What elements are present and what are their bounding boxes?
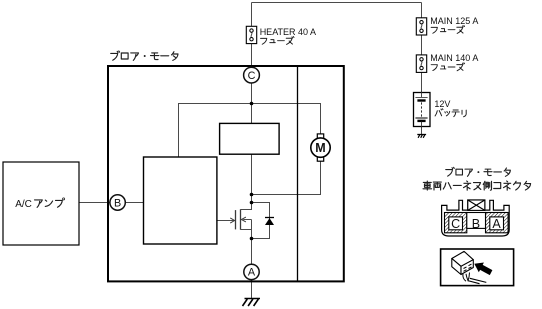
svg-text:MAIN 125 A: MAIN 125 A bbox=[430, 16, 478, 26]
svg-text:M: M bbox=[315, 141, 325, 155]
svg-text:A: A bbox=[248, 267, 256, 279]
svg-text:A: A bbox=[492, 217, 501, 231]
svg-text:C: C bbox=[451, 217, 460, 231]
svg-text:A/C: A/C bbox=[15, 199, 32, 210]
svg-text:C: C bbox=[248, 70, 256, 82]
svg-text:MAIN 140 A: MAIN 140 A bbox=[430, 53, 478, 63]
svg-text:B: B bbox=[114, 197, 121, 209]
svg-text:HEATER 40 A: HEATER 40 A bbox=[260, 27, 316, 37]
svg-text:B: B bbox=[472, 217, 480, 231]
svg-text:12V: 12V bbox=[434, 99, 450, 109]
